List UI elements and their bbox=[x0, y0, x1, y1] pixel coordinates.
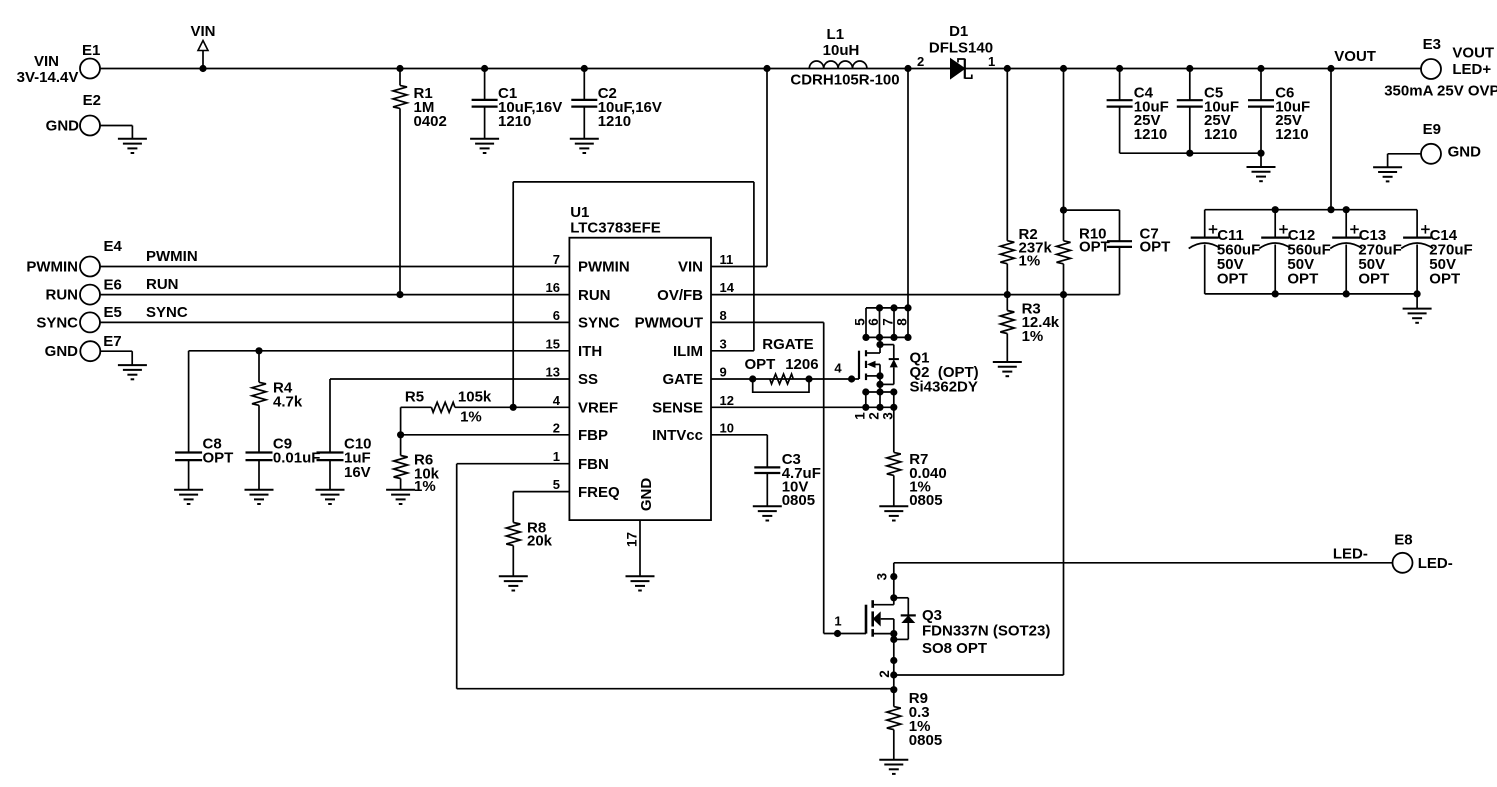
plus mark C13 bbox=[1350, 228, 1359, 230]
svg-text:5: 5 bbox=[553, 477, 560, 492]
IC U1 LTC3783EFE box bbox=[569, 238, 711, 520]
junction FBN wire bbox=[890, 686, 897, 693]
svg-text:OPT: OPT bbox=[1358, 271, 1389, 288]
junction Q3 gate pin 1 bbox=[834, 630, 841, 637]
ground E9 bbox=[1373, 166, 1402, 168]
svg-text:16V: 16V bbox=[344, 464, 371, 481]
wire Q3 source bbox=[890, 657, 897, 664]
capacitor C6 10uF 25V 1210 bbox=[1257, 65, 1264, 72]
svg-text:8: 8 bbox=[720, 308, 727, 323]
terminal E5 SYNC bbox=[80, 312, 100, 332]
wire VIN rail bbox=[100, 68, 1421, 70]
svg-text:E6: E6 bbox=[104, 277, 122, 294]
junction OV/FB R2 bbox=[1004, 291, 1011, 298]
wire VIN pin11 bbox=[711, 266, 767, 268]
svg-text:10uH: 10uH bbox=[823, 42, 860, 59]
wire VOUT to cap bank bbox=[1330, 69, 1332, 210]
svg-text:11: 11 bbox=[720, 252, 734, 267]
svg-text:3V-14.4V: 3V-14.4V bbox=[17, 69, 79, 86]
wire FBP bbox=[401, 434, 570, 436]
wire E2 to ground bbox=[100, 125, 132, 127]
ground R9 bbox=[879, 759, 908, 761]
svg-text:GND: GND bbox=[1448, 144, 1482, 161]
Q1 source pin grid bbox=[866, 391, 894, 393]
svg-text:E3: E3 bbox=[1423, 36, 1441, 53]
svg-text:OPT: OPT bbox=[1429, 271, 1460, 288]
svg-text:14: 14 bbox=[720, 280, 735, 295]
wire cap bank top bus bbox=[1205, 209, 1417, 211]
svg-text:VIN: VIN bbox=[34, 53, 59, 70]
svg-text:FDN337N (SOT23): FDN337N (SOT23) bbox=[922, 623, 1050, 640]
wire FBN bbox=[457, 463, 570, 465]
svg-text:PWMOUT: PWMOUT bbox=[635, 315, 703, 332]
svg-text:OPT: OPT bbox=[203, 450, 234, 467]
wire GATE bbox=[711, 378, 852, 380]
wire Q3 source to R10 box bbox=[894, 674, 1064, 676]
svg-text:SS: SS bbox=[578, 371, 598, 388]
svg-text:RUN: RUN bbox=[578, 287, 611, 304]
transistor Q1 Q2 (OPT) Si4362DY bbox=[879, 337, 881, 353]
terminal E1 VIN bbox=[80, 59, 100, 79]
svg-text:1%: 1% bbox=[414, 478, 436, 495]
svg-text:4: 4 bbox=[834, 361, 842, 376]
body diode Q3 bbox=[894, 597, 909, 599]
ground U1 pin17 bbox=[626, 575, 655, 577]
junction R10 tap bbox=[1060, 65, 1067, 72]
svg-text:GATE: GATE bbox=[662, 371, 703, 388]
wire E9 to ground bbox=[1388, 153, 1421, 155]
resistor R8 20k bbox=[506, 523, 520, 546]
svg-text:GND: GND bbox=[46, 117, 80, 134]
ground R7 bbox=[879, 505, 908, 507]
svg-text:105k: 105k bbox=[458, 389, 492, 406]
wire RUN bbox=[100, 294, 569, 296]
junction VREF R5 bbox=[510, 404, 517, 411]
svg-text:13: 13 bbox=[546, 365, 560, 380]
svg-text:CDRH105R-100: CDRH105R-100 bbox=[790, 72, 899, 89]
svg-text:E9: E9 bbox=[1423, 121, 1441, 138]
ground E7 bbox=[118, 364, 147, 366]
svg-text:1210: 1210 bbox=[498, 113, 531, 130]
svg-text:7: 7 bbox=[553, 252, 560, 267]
svg-text:6: 6 bbox=[866, 318, 881, 326]
svg-text:E2: E2 bbox=[83, 92, 101, 109]
svg-text:VREF: VREF bbox=[578, 400, 618, 417]
body diode Q1 bbox=[880, 344, 894, 346]
wire OV/FB to R2 R3 bbox=[711, 294, 1064, 296]
svg-text:RUN: RUN bbox=[46, 287, 79, 304]
svg-text:ILIM: ILIM bbox=[673, 343, 703, 360]
wire rail to R10 box bbox=[1063, 69, 1065, 211]
resistor R5 105k bbox=[401, 406, 432, 408]
junction VOUT bbox=[1327, 65, 1334, 72]
svg-text:L1: L1 bbox=[827, 26, 845, 43]
svg-text:0805: 0805 bbox=[909, 732, 942, 749]
svg-text:SYNC: SYNC bbox=[36, 314, 78, 331]
capacitor C2 bbox=[581, 65, 588, 72]
svg-text:4.7k: 4.7k bbox=[273, 393, 303, 410]
svg-text:OPT: OPT bbox=[1140, 238, 1171, 255]
capacitor C4 10uF 25V 1210 bbox=[1116, 65, 1123, 72]
ground C8 bbox=[174, 489, 203, 491]
capacitor C9 0.01uF bbox=[246, 451, 273, 453]
junction RUN R1 bbox=[396, 291, 403, 298]
wire R5 to FBP bbox=[400, 407, 402, 435]
resistor RGATE OPT 1206 bbox=[749, 375, 756, 382]
capacitor C3 4.7uF 10V 0805 bbox=[754, 466, 780, 468]
svg-text:0402: 0402 bbox=[414, 113, 447, 130]
wire SS bbox=[330, 378, 569, 380]
junction FBP bbox=[397, 431, 404, 438]
resistor R10 OPT bbox=[1060, 207, 1067, 214]
svg-text:OPT: OPT bbox=[1079, 238, 1110, 255]
svg-text:1210: 1210 bbox=[598, 113, 631, 130]
resistor R4 4.7k bbox=[258, 351, 260, 383]
svg-text:0805: 0805 bbox=[782, 492, 815, 509]
svg-text:0.01uF: 0.01uF bbox=[273, 450, 321, 467]
wire Q3 drain bbox=[893, 563, 895, 605]
svg-text:DFLS140: DFLS140 bbox=[929, 39, 993, 56]
capacitor C11 560uF 50V OPT polarized bbox=[1204, 210, 1206, 237]
svg-text:INTVcc: INTVcc bbox=[652, 427, 703, 444]
svg-text:E1: E1 bbox=[82, 42, 100, 59]
svg-text:0805: 0805 bbox=[909, 492, 942, 509]
ground R8 bbox=[499, 575, 528, 577]
svg-text:9: 9 bbox=[720, 365, 727, 380]
ground C1 bbox=[470, 138, 499, 140]
capacitor C14 270uF 50V OPT polarized bbox=[1416, 210, 1418, 237]
ground C2 bbox=[570, 138, 599, 140]
svg-text:OPT: OPT bbox=[745, 356, 776, 373]
svg-text:LTC3783EFE: LTC3783EFE bbox=[570, 219, 661, 236]
terminal E9 GND bbox=[1421, 144, 1441, 164]
plus mark C12 bbox=[1279, 228, 1288, 230]
svg-text:E7: E7 bbox=[103, 333, 121, 350]
junction R2 tap bbox=[1004, 65, 1011, 72]
svg-text:SYNC: SYNC bbox=[146, 304, 188, 321]
capacitor C10 1uF 16V bbox=[317, 451, 344, 453]
diode D1 schottky DFLS140 bbox=[951, 59, 965, 79]
ground C3 bbox=[753, 505, 782, 507]
capacitor C12 560uF 50V OPT polarized bbox=[1274, 210, 1276, 237]
svg-text:6: 6 bbox=[553, 308, 560, 323]
resistor R9 0.3 1% 0805 bbox=[893, 690, 895, 707]
svg-text:LED-: LED- bbox=[1333, 545, 1368, 562]
svg-text:3: 3 bbox=[875, 572, 890, 580]
svg-text:1206: 1206 bbox=[785, 356, 818, 373]
svg-text:SYNC: SYNC bbox=[578, 315, 620, 332]
svg-text:FREQ: FREQ bbox=[578, 484, 620, 501]
wire ILIM loop bbox=[711, 350, 754, 352]
svg-text:1: 1 bbox=[553, 449, 560, 464]
svg-text:OV/FB: OV/FB bbox=[657, 287, 703, 304]
svg-text:1%: 1% bbox=[1019, 253, 1041, 270]
junction VIN flag bbox=[199, 65, 206, 72]
svg-text:D1: D1 bbox=[949, 23, 968, 40]
svg-text:2: 2 bbox=[877, 670, 892, 678]
wire RGATE bypass bbox=[753, 379, 809, 392]
svg-text:FBN: FBN bbox=[578, 456, 609, 473]
ground E2 bbox=[118, 138, 147, 140]
wire pin17 to ground bbox=[639, 520, 641, 576]
wire Q1 drain from rail bbox=[907, 69, 909, 308]
svg-text:4: 4 bbox=[553, 393, 561, 408]
Q1 drain pin grid bbox=[866, 307, 908, 309]
junction ITH R4 bbox=[255, 347, 262, 354]
terminal E6 RUN bbox=[80, 285, 100, 305]
svg-text:2: 2 bbox=[917, 54, 924, 69]
terminal E7 GND bbox=[80, 341, 100, 361]
wire LED- net bbox=[894, 562, 1393, 564]
ground C9 bbox=[245, 489, 274, 491]
svg-text:1: 1 bbox=[988, 54, 995, 69]
svg-text:VIN: VIN bbox=[190, 23, 215, 40]
wire PWMIN bbox=[100, 266, 569, 268]
svg-text:Q3: Q3 bbox=[922, 607, 942, 624]
ground R6 bbox=[386, 489, 415, 491]
terminal E2 GND bbox=[80, 116, 100, 136]
ground C10 bbox=[316, 489, 345, 491]
svg-text:15: 15 bbox=[546, 336, 560, 351]
svg-text:2: 2 bbox=[553, 420, 560, 435]
svg-text:PWMIN: PWMIN bbox=[146, 248, 198, 265]
svg-text:20k: 20k bbox=[527, 533, 553, 550]
svg-text:350mA 25V OVP: 350mA 25V OVP bbox=[1384, 83, 1497, 100]
svg-text:1: 1 bbox=[852, 412, 867, 420]
svg-text:ITH: ITH bbox=[578, 343, 602, 360]
ground C6 bus bbox=[1260, 153, 1262, 167]
pin 2 label Q3 bbox=[890, 671, 897, 678]
svg-text:VIN: VIN bbox=[678, 259, 703, 276]
svg-text:1210: 1210 bbox=[1204, 126, 1237, 143]
svg-text:FBP: FBP bbox=[578, 427, 608, 444]
wire FREQ bbox=[513, 491, 569, 493]
svg-text:E4: E4 bbox=[104, 238, 123, 255]
wire E7 to ground bbox=[101, 350, 133, 352]
wire R10 C7 box bottom bbox=[1064, 294, 1120, 296]
junction VIN pin11 tap bbox=[763, 65, 770, 72]
wire SENSE bbox=[711, 406, 866, 408]
svg-text:1%: 1% bbox=[460, 408, 482, 425]
resistor R6 10k bbox=[400, 435, 402, 456]
inductor L1 bbox=[809, 61, 867, 69]
resistor R7 0.040 1% 0805 bbox=[893, 407, 895, 452]
svg-text:12: 12 bbox=[720, 393, 734, 408]
svg-text:OPT: OPT bbox=[1287, 271, 1318, 288]
plus mark C14 bbox=[1421, 228, 1430, 230]
svg-text:VOUT: VOUT bbox=[1334, 48, 1376, 65]
svg-text:LED-: LED- bbox=[1418, 555, 1453, 572]
resistor R3 12.4k bbox=[1006, 295, 1008, 311]
svg-text:RGATE: RGATE bbox=[762, 336, 813, 353]
svg-text:PWMIN: PWMIN bbox=[26, 258, 78, 275]
power flag VIN bbox=[202, 51, 204, 69]
plus mark C11 bbox=[1209, 228, 1218, 230]
svg-text:7: 7 bbox=[881, 318, 896, 326]
pin 3 label Q3 bbox=[890, 573, 897, 580]
wire VREF bbox=[513, 406, 569, 408]
svg-text:OPT: OPT bbox=[1217, 271, 1248, 288]
svg-text:PWMIN: PWMIN bbox=[578, 259, 630, 276]
svg-text:1210: 1210 bbox=[1134, 126, 1167, 143]
resistor R2 237k bbox=[1006, 69, 1008, 241]
svg-text:SENSE: SENSE bbox=[652, 400, 703, 417]
svg-text:1: 1 bbox=[834, 614, 841, 629]
capacitor C8 OPT bbox=[175, 451, 202, 453]
ground C14 bbox=[1416, 294, 1418, 309]
resistor R1 bbox=[396, 65, 403, 72]
terminal E4 PWMIN bbox=[80, 257, 100, 277]
terminal E3 VOUT LED+ bbox=[1421, 59, 1441, 79]
wire SYNC bbox=[100, 321, 569, 323]
svg-text:16: 16 bbox=[546, 280, 560, 295]
wire INTVcc bbox=[711, 434, 767, 436]
svg-text:Si4362DY: Si4362DY bbox=[910, 379, 978, 396]
svg-text:8: 8 bbox=[895, 318, 910, 326]
svg-text:1%: 1% bbox=[1022, 328, 1044, 345]
wire C4-C6 bottom bus bbox=[1120, 152, 1261, 154]
terminal E8 LED- bbox=[1393, 553, 1413, 573]
svg-text:LED+: LED+ bbox=[1452, 61, 1491, 78]
wire PWMOUT to Q3 gate bbox=[711, 321, 824, 323]
svg-text:VOUT: VOUT bbox=[1452, 45, 1494, 62]
capacitor C13 270uF 50V OPT polarized bbox=[1345, 210, 1347, 237]
svg-text:1210: 1210 bbox=[1275, 126, 1308, 143]
svg-text:SO8 OPT: SO8 OPT bbox=[922, 640, 987, 657]
ground R3 bbox=[993, 361, 1022, 363]
svg-text:2: 2 bbox=[866, 412, 881, 420]
svg-text:R5: R5 bbox=[405, 389, 424, 406]
capacitor C7 OPT bbox=[1119, 210, 1121, 241]
wire R10 box down to Q3 bbox=[1063, 295, 1065, 675]
wire cap bank bottom bus bbox=[1205, 293, 1417, 295]
capacitor C5 10uF 25V 1210 bbox=[1186, 65, 1193, 72]
svg-text:GND: GND bbox=[638, 478, 655, 512]
capacitor C1 bbox=[481, 65, 488, 72]
svg-text:17: 17 bbox=[625, 532, 640, 547]
svg-text:E5: E5 bbox=[104, 304, 122, 321]
transistor Q3 FDN337N bbox=[890, 594, 897, 601]
svg-text:3: 3 bbox=[720, 336, 727, 351]
junction Q1 gate pin 4 bbox=[848, 375, 855, 382]
svg-text:GND: GND bbox=[45, 343, 79, 360]
junction OV/FB R10 box bbox=[1060, 291, 1067, 298]
svg-text:10: 10 bbox=[720, 420, 734, 435]
junction Q1 drain tap bbox=[904, 65, 911, 72]
wire R10 box top bbox=[1064, 209, 1120, 211]
wire ITH bbox=[189, 350, 570, 352]
svg-text:E8: E8 bbox=[1394, 532, 1412, 549]
svg-text:RUN: RUN bbox=[146, 276, 179, 293]
